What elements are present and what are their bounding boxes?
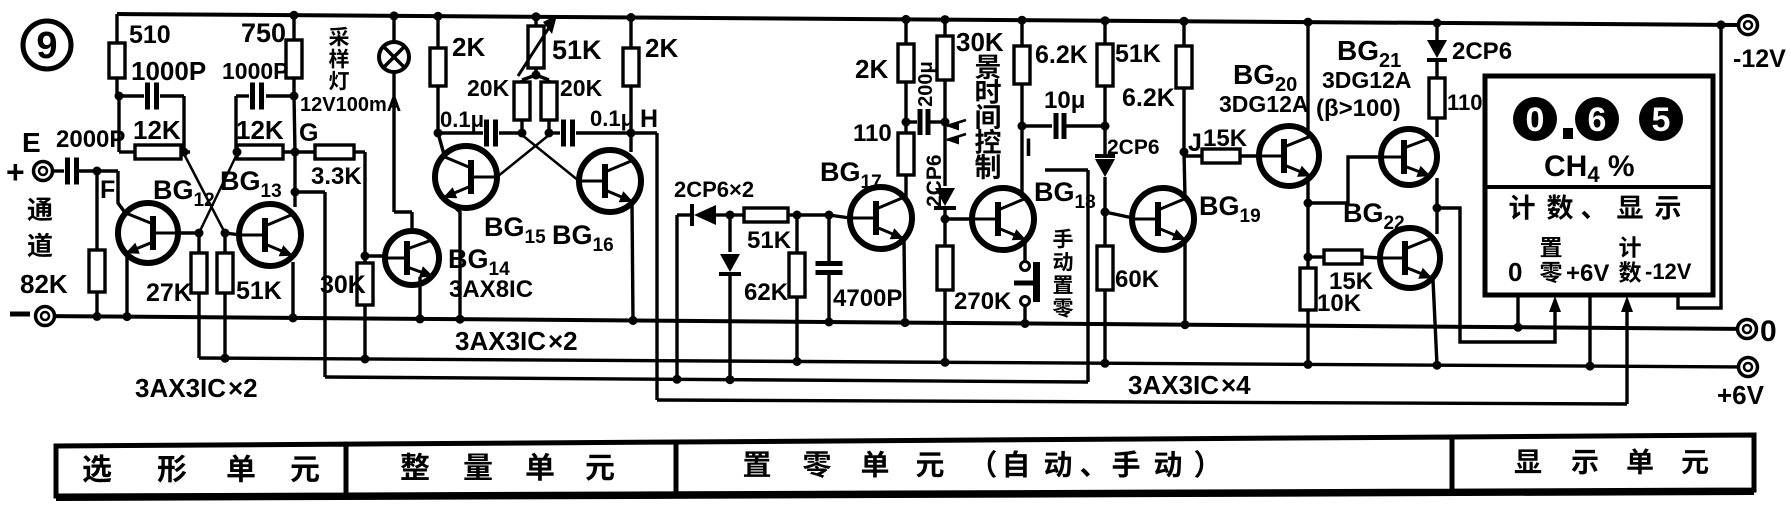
node BG15 collector [434, 86, 446, 158]
display pin labels [1508, 236, 1692, 287]
svg-text:12V100mA: 12V100mA [300, 94, 401, 116]
wire BG17 emitter to ground [901, 241, 910, 327]
svg-text:3AX3IC: 3AX3IC [135, 373, 226, 403]
label CH4 percent [1544, 150, 1635, 187]
capacitor 200u [906, 61, 945, 135]
display pin +6V [1586, 295, 1595, 371]
node H [627, 86, 659, 152]
svg-text:750: 750 [241, 18, 286, 48]
resistor 6.2K first [1014, 16, 1088, 84]
wire BG16 emitter to ground [629, 203, 638, 325]
wire 510 to node [115, 78, 124, 152]
wire 10K to +6V bus [1304, 310, 1313, 369]
svg-text:-12V: -12V [1733, 45, 1786, 73]
wire 51K to +6V bus [221, 293, 230, 363]
node 200u tap [902, 82, 911, 127]
wire 60K to +6V bus [1101, 290, 1110, 368]
capacitor 4700P [816, 215, 903, 312]
svg-text:6: 6 [1588, 101, 1607, 139]
wire 51K tap to 20K pair [522, 68, 549, 82]
display unit box [1485, 76, 1713, 295]
svg-text:270K: 270K [954, 288, 1012, 315]
svg-text:60K: 60K [1115, 266, 1160, 293]
resistor 62K [744, 215, 805, 306]
wire 62K to +6V bus [793, 297, 802, 366]
transistor BG14 [385, 231, 533, 303]
svg-text:3DG12A: 3DG12A [1219, 91, 1308, 117]
svg-text:6.2K: 6.2K [1035, 41, 1088, 69]
resistor 20K right [541, 75, 603, 138]
svg-text:3DG12A: 3DG12A [1322, 67, 1411, 93]
svg-text:×4: ×4 [1221, 370, 1251, 400]
+6V bus [199, 358, 1738, 367]
terminal -12V [1733, 16, 1786, 73]
wire 30K to +6V bus [361, 305, 370, 364]
display pin 0 [1514, 295, 1523, 332]
diode 2CP6 fourth [1095, 126, 1160, 212]
diode 2CP6 top right [1427, 19, 1512, 66]
label sampling lamp 采样灯 [300, 27, 401, 116]
diode 2CP6 vertical [719, 215, 741, 384]
svg-text:51K: 51K [236, 277, 282, 305]
svg-text:6.2K: 6.2K [1122, 84, 1175, 112]
node 10u right [1101, 86, 1110, 131]
transistor BG18 [972, 177, 1096, 250]
cross wire BG16 base to 20K left [522, 135, 579, 181]
label count display 计数显示 [1510, 194, 1681, 219]
transistor BG12 [118, 175, 215, 263]
capacitor 1000P first [119, 56, 206, 152]
wire BG12 emitter to ground [123, 257, 132, 321]
svg-text:2CP6×2: 2CP6×2 [674, 177, 754, 202]
svg-text:30K: 30K [320, 271, 366, 299]
svg-text:0.1μ: 0.1μ [440, 107, 484, 132]
resistor 82K [20, 250, 105, 299]
wire rail to BG20 collector [1304, 18, 1313, 134]
digit 0 [1513, 97, 1557, 141]
node 62K top [793, 211, 830, 220]
resistor 12K second [233, 115, 284, 159]
svg-text:110: 110 [1447, 90, 1483, 115]
transistor BG16 [552, 150, 641, 256]
node G [283, 96, 318, 157]
diode 2CP6 left [692, 204, 730, 226]
svg-text:1000P: 1000P [131, 56, 206, 86]
wire 4700P to ground [825, 273, 834, 327]
resistor 12K first [119, 115, 181, 159]
transistor BG19 [1132, 188, 1261, 250]
cross-coupling wire BG13 base [184, 154, 241, 238]
counter drive line [657, 296, 1633, 404]
band bottom thick edge [56, 493, 1754, 499]
-12V top rail [117, 14, 1738, 25]
resistor 51K reset [730, 208, 797, 254]
capacitor 2000P [52, 126, 125, 185]
digit 5 [1639, 97, 1683, 141]
svg-text:20K: 20K [560, 75, 603, 101]
label 3AX3IC x2 middle [455, 326, 578, 356]
svg-text:0: 0 [1508, 257, 1522, 287]
capacitor 10u [1022, 87, 1105, 139]
wire switch loop [1045, 170, 1088, 382]
resistor 6.2K second [1122, 17, 1192, 112]
wire 270K to +6V bus [941, 290, 950, 367]
svg-text:12K: 12K [236, 115, 284, 145]
svg-text:82K: 82K [20, 269, 68, 299]
wire BG20 emitter down [1304, 178, 1313, 208]
wire BG21 base elbow [1308, 157, 1381, 203]
resistor 2K first [430, 12, 485, 86]
node BG22 base junction [1304, 203, 1313, 262]
transistor BG15 [435, 146, 546, 248]
resistor 30K [320, 256, 373, 305]
unit box display 显示单元 [1452, 435, 1754, 491]
node BG19 base [1101, 208, 1134, 219]
resistor 30K pot [937, 15, 1004, 126]
unit box shaping 整量单元 [346, 442, 676, 495]
label 3AX3IC x4 [1128, 370, 1251, 400]
resistor 270K [937, 219, 1012, 315]
variable resistor 51K [518, 12, 602, 76]
label manual reset 手动置零 [1053, 229, 1073, 318]
capacitor 0.1u second [549, 106, 634, 147]
resistor 110 first [853, 120, 914, 198]
pot wiper arrows [946, 120, 966, 145]
label 2CP6 x2 [674, 177, 754, 202]
node J [1180, 88, 1202, 198]
wire 3.3K to 30K node [354, 152, 385, 261]
digit 6 [1575, 97, 1619, 141]
svg-text:H: H [640, 105, 658, 133]
label 3AX3IC x2 left [135, 373, 258, 403]
svg-text:10μ: 10μ [1044, 87, 1085, 114]
wire BG13 collector [291, 152, 300, 207]
svg-text:+6V: +6V [1566, 260, 1609, 287]
terminal 0 [1738, 315, 1777, 348]
svg-text:F: F [100, 176, 115, 204]
svg-text:2000P: 2000P [56, 126, 125, 153]
svg-text:15K: 15K [1203, 125, 1248, 152]
wire diode to reset line [673, 215, 693, 384]
svg-text:4700P: 4700P [833, 285, 902, 312]
terminal E+ input [6, 127, 53, 190]
wire BG15 emitter to ground [447, 200, 465, 324]
wire BG13 emitter to ground [289, 262, 298, 322]
resistor 15K second [1308, 250, 1381, 295]
svg-text:0: 0 [1760, 315, 1777, 348]
node BG18 base [941, 215, 974, 224]
svg-text:3AX3IC: 3AX3IC [1128, 370, 1219, 400]
figure number 9 [23, 21, 71, 69]
svg-text:×2: ×2 [548, 326, 578, 356]
node I [1018, 84, 1032, 198]
manual reset switch [1014, 241, 1040, 328]
svg-text:2K: 2K [452, 32, 485, 62]
transistor BG21 [1316, 35, 1437, 185]
svg-text:15K: 15K [1329, 268, 1374, 295]
svg-text:E: E [22, 127, 41, 158]
label delay time control [975, 55, 1001, 180]
resistor 15K first [1184, 125, 1260, 163]
wire 82K to ground [93, 292, 102, 321]
decimal point [1563, 128, 1573, 139]
svg-text:3.3K: 3.3K [311, 163, 362, 190]
svg-text:×2: ×2 [228, 373, 258, 403]
svg-text:200μ: 200μ [915, 61, 937, 107]
resistor 110 second [1429, 60, 1483, 137]
resistor 20K left [467, 75, 530, 138]
diode 2CP6 third [934, 122, 956, 219]
wire rail to 750 [290, 11, 299, 40]
label 2CP6 vertical text [923, 154, 946, 207]
display pin -12V [1678, 20, 1726, 308]
transistor BG17 [820, 157, 912, 249]
svg-text:5: 5 [1652, 101, 1671, 139]
resistor 27K [146, 233, 207, 307]
svg-text:1000P: 1000P [222, 58, 289, 84]
cross wire BG15 base to 20K right [497, 135, 549, 177]
svg-text:-12V: -12V [1645, 259, 1692, 284]
svg-text:51K: 51K [1115, 40, 1161, 68]
svg-text:2CP6: 2CP6 [1452, 38, 1512, 65]
svg-text:I: I [1025, 134, 1032, 162]
svg-text:27K: 27K [146, 279, 192, 307]
resistor 2K second [623, 13, 678, 86]
wire BG14 emitter to ground [416, 277, 425, 323]
wire H to counter line [631, 133, 657, 400]
svg-text:30K: 30K [956, 27, 1004, 57]
transistor BG13 [220, 166, 301, 266]
svg-text:3AX3IC: 3AX3IC [455, 326, 546, 356]
svg-text:510: 510 [129, 21, 171, 49]
wire BG12 collector to F [118, 171, 126, 214]
wire BG22 emitter to +6V bus [1433, 280, 1442, 370]
capacitor 1000P second [222, 58, 299, 152]
resistor 60K [1097, 212, 1160, 293]
svg-text:+: + [6, 154, 25, 190]
node BG21 emitter [1433, 178, 1442, 234]
wire lamp to BG14 [394, 72, 412, 232]
wire F down [95, 171, 98, 250]
node diode junction [726, 211, 735, 220]
svg-text:J: J [1188, 129, 1202, 157]
lamp [379, 11, 409, 72]
terminal +6V [1717, 358, 1765, 411]
svg-text:62K: 62K [744, 279, 789, 306]
resistor 3.3K [311, 145, 362, 190]
wire BG19 emitter to ground [1181, 241, 1190, 329]
svg-text:20K: 20K [467, 75, 510, 101]
resistor 51K left [217, 233, 282, 305]
unit box reset 置零单元 [676, 437, 1452, 494]
unit box waveform selection 选形单元 [56, 444, 346, 496]
svg-text:51K: 51K [552, 35, 602, 65]
node 4700P top [825, 211, 851, 220]
label channel 通道 [28, 197, 53, 257]
resistor 10K [1300, 257, 1362, 317]
cross-coupling wire BG12 base [178, 154, 237, 238]
ground 0 rail [54, 316, 1737, 329]
svg-text:110: 110 [853, 120, 892, 147]
transistor BG20 [1219, 59, 1319, 186]
svg-text:9: 9 [36, 25, 57, 67]
node 12K first right [180, 148, 191, 157]
transistor BG22 [1343, 198, 1440, 288]
svg-text:2K: 2K [645, 33, 678, 63]
svg-text:G: G [299, 119, 318, 147]
resistor 510 [109, 21, 171, 78]
reset line [325, 377, 1088, 382]
svg-text:0.1μ: 0.1μ [590, 106, 634, 131]
resistor 2K third [855, 15, 914, 84]
wire BG13 to reset line [295, 192, 325, 377]
svg-text:0: 0 [1526, 101, 1545, 139]
wire rail to 510 [115, 14, 118, 43]
svg-text:2K: 2K [855, 54, 888, 84]
svg-text:+6V: +6V [1717, 380, 1765, 410]
svg-text:(β>100): (β>100) [1316, 95, 1401, 122]
svg-text:51K: 51K [747, 227, 792, 254]
wire reset to display [1437, 208, 1561, 342]
svg-text:12K: 12K [133, 115, 181, 145]
node F [93, 167, 116, 205]
capacitor 0.1u first [438, 107, 522, 147]
resistor 750 [241, 18, 302, 78]
wire 27K to +6V bus [197, 293, 200, 358]
resistor 51K third [1097, 16, 1161, 86]
terminal - input [10, 307, 55, 326]
